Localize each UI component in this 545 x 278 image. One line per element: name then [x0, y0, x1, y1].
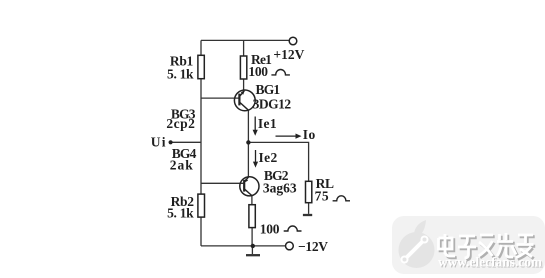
svg-text:100: 100 [260, 222, 280, 237]
svg-text:2cp2: 2cp2 [166, 116, 195, 131]
svg-text:75: 75 [315, 189, 330, 204]
svg-text:Ie2: Ie2 [259, 150, 278, 165]
svg-text:Io: Io [303, 127, 316, 142]
svg-text:+12V: +12V [273, 47, 304, 62]
svg-text:3DG12: 3DG12 [253, 97, 292, 112]
svg-text:−12V: −12V [298, 239, 328, 254]
svg-text:2ak: 2ak [170, 157, 194, 172]
svg-text:Ie1: Ie1 [258, 116, 277, 131]
svg-text:100: 100 [248, 64, 268, 79]
svg-text:www.elecfans.com: www.elecfans.com [438, 255, 542, 270]
svg-text:BG1: BG1 [256, 82, 281, 97]
svg-text:5. 1k: 5. 1k [167, 66, 194, 81]
svg-text:5. 1k: 5. 1k [167, 205, 194, 220]
svg-text:3ag63: 3ag63 [263, 180, 297, 195]
svg-text:Ui: Ui [151, 135, 167, 150]
